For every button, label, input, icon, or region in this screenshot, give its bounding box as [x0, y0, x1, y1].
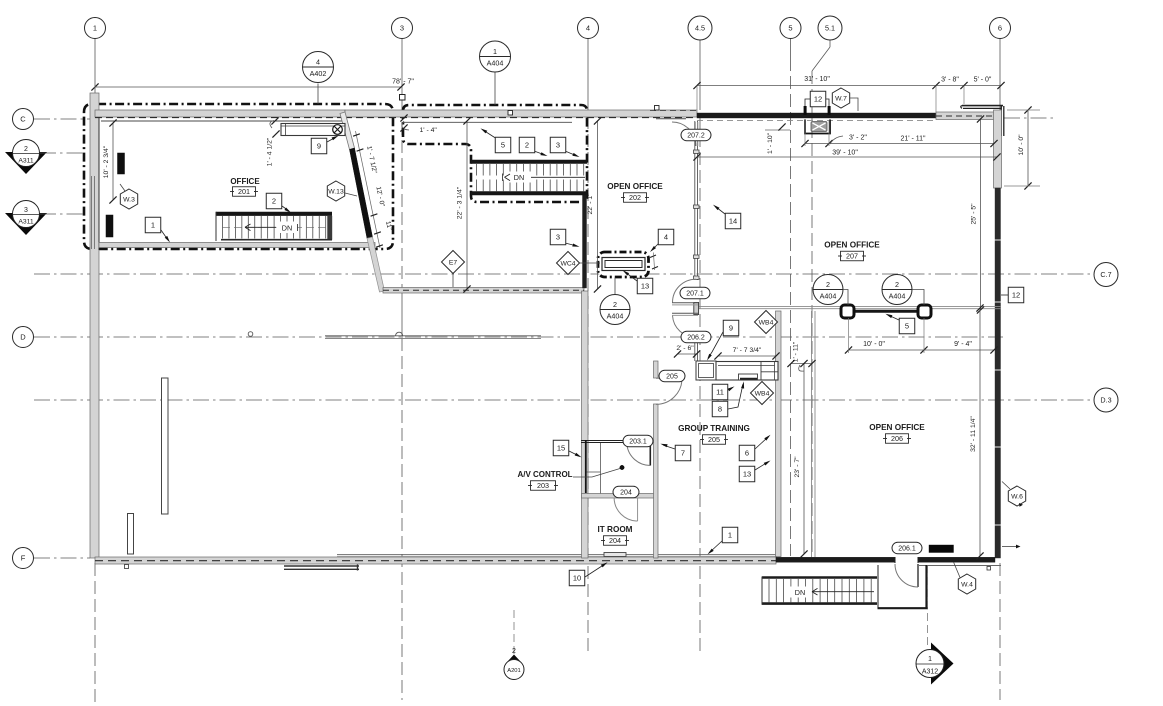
- equipment point in A/V CONTROL: [620, 465, 624, 469]
- svg-text:11: 11: [716, 388, 724, 397]
- svg-text:6: 6: [745, 449, 749, 458]
- glazed wall segment below double doors: [694, 338, 696, 362]
- svg-text:205: 205: [666, 373, 678, 380]
- callout 13 leader (group training): [755, 462, 768, 470]
- callout 12 leader (top wall): [805, 99, 810, 107]
- svg-text:5: 5: [905, 322, 909, 331]
- callout 6 leader (group training): [755, 437, 768, 449]
- svg-text:OPEN OFFICE: OPEN OFFICE: [869, 423, 925, 432]
- callout box 2 stair 2: [519, 137, 535, 153]
- section marker 2/A201 at bottom: [513, 610, 515, 655]
- top exterior wall east grey segment: [936, 112, 994, 120]
- column at east end of heavy wall: [918, 305, 931, 318]
- svg-text:9: 9: [729, 324, 733, 333]
- stair 1 DN arrow: [245, 226, 276, 228]
- svg-text:OPEN OFFICE: OPEN OFFICE: [824, 241, 880, 250]
- svg-text:10' - 0": 10' - 0": [863, 341, 885, 348]
- svg-text:A404: A404: [487, 59, 504, 68]
- existing wall centerline dashes (top mid): [345, 117, 697, 119]
- dimension 23'-7": [803, 364, 805, 555]
- svg-text:4: 4: [316, 58, 320, 67]
- door tag 206.1: [892, 542, 922, 554]
- svg-text:DN: DN: [795, 588, 805, 597]
- door 204 into IT ROOM: [637, 498, 639, 522]
- grid line 4 (vertical): [587, 39, 589, 111]
- callout box 7: [675, 445, 691, 461]
- callout box 13 fixture: [637, 278, 653, 294]
- svg-text:206.2: 206.2: [687, 334, 705, 341]
- column at west end of heavy wall: [841, 305, 854, 318]
- svg-text:23' - 7": 23' - 7": [794, 456, 801, 478]
- svg-text:13: 13: [641, 282, 649, 291]
- svg-text:3: 3: [400, 24, 404, 33]
- shell space wall element tall: [162, 378, 169, 514]
- elevation marker 2/A404 (fixture): [614, 278, 616, 295]
- svg-text:4.5: 4.5: [695, 24, 705, 33]
- svg-text:21' - 11": 21' - 11": [900, 136, 926, 143]
- callout box 11 credenza: [712, 384, 728, 400]
- svg-text:2: 2: [525, 141, 529, 150]
- dimension string 10'-0" / 9'-4" open office 207: [849, 349, 995, 351]
- svg-text:1: 1: [728, 531, 732, 540]
- callout 3 leader (wall at grid 4): [565, 243, 577, 246]
- callout box 3 stair 2: [550, 137, 566, 153]
- callout box 9 corridor: [723, 320, 739, 336]
- callout box 5 stair lobby: [495, 137, 511, 153]
- svg-text:32' - 11 1/4": 32' - 11 1/4": [970, 416, 977, 452]
- svg-text:22' - 3 1/4": 22' - 3 1/4": [457, 186, 464, 219]
- svg-text:1: 1: [93, 24, 97, 33]
- grid bubble 5.1: [818, 16, 842, 40]
- callout box 4 fixture: [658, 229, 674, 245]
- wall tag W.7: [832, 88, 849, 108]
- callout 4 leader (fixture): [652, 243, 659, 250]
- svg-text:205: 205: [708, 435, 720, 444]
- svg-text:22' - 1": 22' - 1": [587, 193, 594, 215]
- door tag 205: [659, 370, 685, 382]
- svg-text:2: 2: [24, 146, 28, 153]
- svg-text:3: 3: [556, 233, 560, 242]
- svg-text:3: 3: [24, 207, 28, 214]
- svg-text:7' - 7 3/4": 7' - 7 3/4": [733, 347, 762, 354]
- credenza main counter (group training north): [716, 362, 778, 381]
- callout box 5 open office 207: [899, 318, 915, 334]
- svg-text:203.1: 203.1: [629, 438, 647, 445]
- grid bubble 4.5: [688, 16, 712, 40]
- svg-text:A201: A201: [507, 668, 521, 674]
- svg-text:A404: A404: [607, 312, 624, 321]
- canopy edge dark line below wall (south-west): [284, 565, 359, 567]
- callout 14 leader (open office 207): [716, 207, 725, 214]
- svg-text:D: D: [20, 333, 26, 342]
- stair 1 centerline dashes: [222, 226, 330, 228]
- section marker 1/A312 at bottom right: [927, 565, 929, 648]
- svg-text:IT ROOM: IT ROOM: [597, 525, 632, 534]
- callout 2 leader (stair 2): [534, 151, 545, 155]
- svg-text:204: 204: [620, 489, 632, 496]
- svg-text:3' - 8": 3' - 8": [941, 77, 959, 84]
- grid bubble 3: [392, 18, 413, 39]
- callout box 15: [553, 440, 569, 456]
- shell space wall element short: [128, 514, 134, 555]
- svg-text:C: C: [20, 115, 26, 124]
- A/V CONTROL north wall (heavy): [581, 440, 630, 442]
- canopy / level-1 roof edge line above bottom wall: [337, 554, 777, 556]
- svg-text:W.4: W.4: [961, 581, 973, 588]
- ceiling fan symbol (circle with X): [333, 125, 343, 135]
- grid bubble 1: [85, 18, 106, 39]
- svg-text:39' - 10": 39' - 10": [832, 150, 858, 157]
- grid bubble 6: [990, 18, 1011, 39]
- top exterior wall west segment (existing, grey): [95, 110, 345, 117]
- svg-text:A311: A311: [18, 219, 34, 226]
- stair 2 bottom rail: [471, 191, 587, 195]
- svg-text:A312: A312: [922, 669, 938, 676]
- svg-text:WB4: WB4: [755, 390, 770, 397]
- door 207.1 (upper leaf of double doors): [672, 302, 698, 304]
- callout box 8 credenza: [712, 401, 728, 417]
- callout box 1 bottom: [722, 527, 738, 543]
- section marker 3/A311: [5, 213, 47, 235]
- keynote diamond E7: [442, 251, 465, 274]
- svg-text:WB4: WB4: [759, 319, 774, 326]
- callout 15 leader (A/V control): [569, 451, 579, 456]
- door tag 207.2: [681, 129, 711, 141]
- glazed wall of OPEN OFFICE 202 east side: [694, 121, 696, 280]
- interior face line of top wall in OFFICE 201: [101, 120, 344, 122]
- svg-text:1' - 11": 1' - 11": [793, 341, 800, 362]
- IT ROOM / GROUP TRAINING west wall (grey): [654, 404, 659, 558]
- dimension 10'-0" right side: [1027, 110, 1029, 186]
- dimensions along slanted wall: [356, 131, 381, 248]
- IT ROOM floor box / threshold: [604, 553, 626, 557]
- fixture item WC4 with heavy dash-dot surround: [598, 252, 649, 277]
- svg-text:10: 10: [573, 574, 581, 583]
- svg-text:A404: A404: [820, 292, 837, 301]
- door 206.1 at entry (leaf and swing): [917, 564, 919, 587]
- dimension 1'-11": [791, 363, 812, 365]
- door 207.2 at top wall (leaf and swing): [672, 122, 696, 146]
- svg-text:12: 12: [814, 95, 822, 104]
- svg-text:DN: DN: [282, 224, 292, 233]
- dimension 22'-1" open office 202: [597, 121, 599, 289]
- svg-text:2: 2: [826, 280, 830, 289]
- callout box 12 right wall: [1008, 287, 1024, 303]
- svg-text:D.3: D.3: [1100, 396, 1111, 405]
- svg-text:2' - 6": 2' - 6": [676, 345, 694, 352]
- svg-text:A311: A311: [18, 158, 34, 165]
- electrical panel recessed in wall (open office 207): [805, 120, 830, 134]
- svg-text:10' - 2 3/4": 10' - 2 3/4": [103, 145, 110, 178]
- grid bubble D.3: [1094, 388, 1118, 412]
- corridor west wall (grey) along grid 4: [582, 291, 589, 558]
- mullion marks on glazed wall: [694, 150, 700, 153]
- svg-text:6: 6: [998, 24, 1002, 33]
- callout box 9 office 201: [311, 138, 327, 154]
- svg-text:207.2: 207.2: [687, 132, 705, 139]
- canopy edge line in shell space at grid D: [325, 335, 541, 337]
- svg-text:WC4: WC4: [560, 260, 575, 267]
- right wall mullion marks: [994, 239, 1002, 241]
- callout 7 leader (group training door): [663, 445, 675, 449]
- door 206.2 (lower leaf of double doors): [672, 312, 698, 314]
- small dimension ticks at fixture corner: [650, 255, 656, 258]
- svg-text:F: F: [21, 554, 26, 563]
- scope boundary around stair 2 (heavy dash-dot): [403, 105, 587, 202]
- wall between A/V CONTROL and IT ROOM (grey): [582, 494, 657, 499]
- A/V CONTROL equipment leader: [573, 469, 620, 478]
- wall on grid 4 between stair lobby and open office 202 (heavy): [583, 193, 587, 288]
- svg-text:A/V CONTROL: A/V CONTROL: [517, 470, 572, 479]
- callout 12 leader (right wall): [1001, 294, 1008, 296]
- dimension 32'-11 1/4": [979, 308, 981, 556]
- door 206.1 jambs: [894, 557, 896, 563]
- dimension 25'-5" right wall: [980, 119, 982, 310]
- right exterior wall (heavy, existing storefront): [995, 188, 1001, 558]
- window tag arrow right wall lower: [1002, 546, 1016, 548]
- svg-text:25' - 5": 25' - 5": [971, 203, 978, 225]
- elevation marker 2/A404 west (open office 207): [813, 275, 843, 305]
- svg-text:9: 9: [317, 142, 321, 151]
- grid line 1 (vertical): [94, 39, 96, 94]
- grid bubble C: [13, 109, 34, 130]
- svg-text:2: 2: [613, 300, 617, 309]
- callout 8 leader (credenza): [728, 384, 743, 409]
- grid line D.3 (horizontal): [34, 399, 1094, 401]
- small circle marker in shell space: [248, 332, 253, 337]
- svg-text:5: 5: [788, 24, 792, 33]
- callout box 13 group training: [739, 466, 755, 482]
- svg-text:1' - 4": 1' - 4": [420, 127, 438, 134]
- svg-text:GROUP TRAINING: GROUP TRAINING: [678, 424, 750, 433]
- nub marker at grid 3 on canopy edge: [396, 332, 403, 336]
- svg-text:10' - 0": 10' - 0": [1018, 134, 1025, 156]
- callout 5 leader (heavy wall 207): [888, 315, 899, 320]
- svg-text:1: 1: [928, 654, 932, 663]
- svg-text:A402: A402: [310, 69, 327, 78]
- dimension 22'-3 1/4" stair 2: [466, 121, 468, 289]
- callout 3 leader (stair 2 right): [565, 151, 577, 156]
- bottom wall east (heavy storefront): [776, 557, 895, 562]
- grid line 5.1 (vertical, offset leader): [829, 39, 831, 48]
- elevation marker 1/A404: [494, 73, 496, 106]
- svg-text:W.6: W.6: [1011, 493, 1023, 500]
- dimension string 3'-2" / 21'-11": [805, 143, 994, 145]
- counter line along stair lobby wall: [402, 121, 572, 123]
- keynote diamond WC4: [557, 252, 580, 275]
- svg-text:DN: DN: [514, 173, 524, 182]
- callout box 14: [725, 213, 741, 229]
- dimension 39'-10": [697, 156, 997, 158]
- svg-text:OFFICE: OFFICE: [230, 177, 260, 186]
- svg-text:E7: E7: [449, 259, 458, 266]
- wall tag W.6: [1008, 486, 1025, 506]
- grid bubble F: [13, 548, 34, 569]
- slanted wall of OFFICE 201 - window segment: [340, 112, 355, 150]
- grid line D (horizontal): [34, 336, 1003, 338]
- door tag 207.1: [680, 287, 710, 299]
- grid line C (horizontal): [34, 118, 92, 120]
- stair 1 in OFFICE 201 - top rail: [216, 212, 332, 216]
- svg-text:C.7: C.7: [1100, 270, 1111, 279]
- small square marker on wall x655: [655, 106, 660, 111]
- keynote diamond WB4 upper: [755, 311, 778, 334]
- small square below wall SW: [125, 565, 129, 569]
- grid line C.7 (horizontal): [34, 273, 1094, 275]
- callout box 2 stair 1: [266, 193, 282, 209]
- callout box 3 wall grid4: [550, 229, 566, 245]
- svg-text:7: 7: [681, 449, 685, 458]
- svg-text:1: 1: [493, 47, 497, 56]
- acoustic wall line inside A/V control west wall: [585, 440, 587, 493]
- svg-text:1' - 10": 1' - 10": [767, 132, 774, 154]
- stair 3 DN arrow: [790, 587, 811, 598]
- svg-text:2: 2: [272, 197, 276, 206]
- stair 1 right end: [328, 216, 333, 240]
- callout box 6: [739, 445, 755, 461]
- door post between double doors 207.1/206.2: [694, 303, 699, 315]
- callout 9 leader (office counter): [327, 137, 336, 142]
- partition inside A/V CONTROL: [600, 443, 602, 494]
- svg-text:207.1: 207.1: [686, 290, 704, 297]
- south wall of stair lobby / office 202 (existing grey): [383, 288, 584, 294]
- elevation marker 2/A404 east (open office 207): [882, 275, 912, 305]
- stair 3 left end: [761, 577, 763, 605]
- callout 1 leader (office 201): [161, 230, 168, 240]
- credenza casework left box (corridor): [696, 361, 716, 380]
- bottom exterior wall west (existing, grey): [95, 557, 776, 564]
- stair 2 in lobby - top rail: [471, 160, 587, 164]
- door tag 204: [613, 486, 639, 498]
- scope boundary around OFFICE 201 (heavy dash-dot): [84, 104, 393, 249]
- svg-text:9' - 4": 9' - 4": [954, 341, 972, 348]
- grid line 4.5 (vertical): [699, 39, 701, 111]
- door 207.2 header line: [656, 118, 686, 120]
- svg-text:14: 14: [729, 217, 737, 226]
- stair 1 treads: [222, 216, 224, 239]
- wall item (dark bar) in left wall lower: [106, 215, 113, 237]
- svg-text:W.7: W.7: [835, 95, 847, 102]
- wall tag W.3: [120, 189, 137, 209]
- wall tag W.13: [327, 181, 344, 201]
- svg-text:4: 4: [664, 233, 668, 242]
- callout box 10: [569, 570, 585, 586]
- OFFICE 201 south wall (grey): [99, 243, 375, 248]
- wall item (dark bar) in left wall upper: [118, 153, 125, 174]
- callout 11 leader (credenza): [728, 388, 732, 390]
- stair 3 at entry (existing) - top rail: [762, 576, 877, 579]
- elevation marker 4/A402: [317, 84, 319, 105]
- svg-text:207: 207: [846, 252, 858, 261]
- dimension 7'-7 3/4" at credenza: [718, 355, 776, 357]
- OPEN OFFICE 206 west wall (thin double line): [811, 311, 813, 557]
- svg-text:8: 8: [718, 405, 722, 414]
- counter casework in OFFICE 201: [281, 124, 345, 136]
- GROUP TRAINING east wall (grey): [776, 311, 782, 557]
- svg-text:15: 15: [557, 444, 565, 453]
- dimension 10'-2 3/4" in OFFICE 201: [112, 123, 114, 200]
- right exterior wall upper (grey): [994, 110, 1002, 188]
- svg-text:206.1: 206.1: [898, 545, 916, 552]
- stair 1 bottom rail: [221, 239, 332, 241]
- callout 5 leader (stair lobby): [483, 130, 497, 139]
- grid line 3 (vertical): [401, 39, 403, 105]
- svg-text:2: 2: [895, 280, 899, 289]
- grid bubble 5: [780, 18, 801, 39]
- stair 2 DN arrow: [508, 172, 531, 183]
- slanted wall lower (existing grey): [367, 237, 385, 292]
- stair 3 bottom rail: [762, 602, 877, 605]
- wall tag W.4: [958, 574, 975, 594]
- section marker 2/A311: [5, 152, 47, 174]
- svg-text:1: 1: [151, 221, 155, 230]
- top wall new segment (heavy): [697, 113, 936, 118]
- keynote diamond WB4 lower: [751, 382, 774, 405]
- svg-text:203: 203: [537, 481, 549, 490]
- slanted wall of OFFICE 201 - solid segment: [350, 148, 373, 238]
- grid line 6 (vertical): [999, 39, 1001, 111]
- callout box 12 top wall: [810, 91, 826, 107]
- door 203.1 into A/V CONTROL: [649, 442, 651, 466]
- lower canopy edge below bottom wall (south-east): [919, 565, 1001, 567]
- callout 2 leader (stair 1): [282, 206, 289, 211]
- svg-text:31' - 10": 31' - 10": [804, 76, 830, 83]
- callout 10 leader (IT room): [585, 564, 605, 577]
- svg-text:4: 4: [586, 24, 590, 33]
- top exterior wall mid segment (existing, grey): [345, 110, 697, 117]
- left exterior wall (existing): [90, 93, 99, 558]
- svg-text:OPEN OFFICE: OPEN OFFICE: [607, 182, 663, 191]
- svg-text:5' - 0": 5' - 0": [974, 77, 992, 84]
- south wall of OPEN OFFICE 207 (thin double line): [697, 306, 1001, 308]
- callout 9 leader (corridor): [708, 332, 723, 358]
- vestibule walls at entry: [877, 565, 879, 608]
- grid bubble D: [13, 327, 34, 348]
- stair 3 treads: [768, 579, 770, 602]
- grid bubble C.7: [1094, 263, 1118, 287]
- svg-text:5: 5: [501, 141, 505, 150]
- svg-text:201: 201: [238, 187, 250, 196]
- door 205 into GROUP TRAINING: [656, 377, 682, 379]
- door tag 203.1: [623, 435, 653, 447]
- svg-text:202: 202: [629, 193, 641, 202]
- small square marker on wall x510: [508, 111, 513, 116]
- top dimension string 31'-10" / 3'-8" / 5'-0": [697, 85, 1001, 87]
- dimension 78'-7" between grids 1 and 3: [95, 86, 401, 88]
- svg-text:13: 13: [743, 470, 751, 479]
- svg-text:78' - 7": 78' - 7": [392, 79, 414, 86]
- stair 2 treads (dashed): [476, 164, 478, 176]
- callout box 1 office 201: [145, 217, 161, 233]
- small square below wall SE: [987, 567, 991, 571]
- svg-text:1' - 4 1/2": 1' - 4 1/2": [267, 137, 274, 166]
- svg-text:3: 3: [556, 141, 560, 150]
- callout 1 leader (bottom wall): [710, 541, 722, 552]
- grid bubble 4: [578, 18, 599, 39]
- dimension 2'-6" at double doors: [678, 353, 697, 355]
- svg-text:3' - 2": 3' - 2": [849, 135, 867, 142]
- grid line F (horizontal): [34, 557, 90, 559]
- svg-text:A404: A404: [889, 292, 906, 301]
- svg-text:2: 2: [512, 648, 516, 655]
- svg-text:206: 206: [891, 434, 903, 443]
- svg-text:W.3: W.3: [123, 196, 135, 203]
- door tag 206.2: [681, 331, 711, 343]
- black door panel mark above wall (206.1): [929, 545, 954, 553]
- north-east parapet ledge: [962, 105, 1003, 107]
- svg-text:W.13: W.13: [328, 188, 344, 195]
- existing wall centerline dashes (top west): [95, 117, 345, 119]
